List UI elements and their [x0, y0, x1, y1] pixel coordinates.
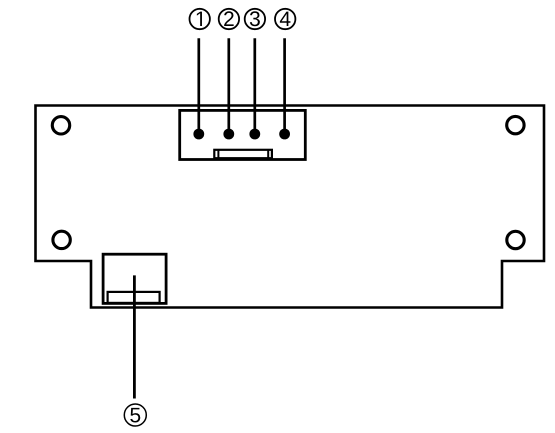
top connector tab — [214, 150, 272, 158]
mounting hole bottom-left — [53, 231, 70, 248]
pin 3 dot — [249, 129, 260, 140]
pin 2 dot — [223, 129, 234, 140]
mounting hole top-left — [52, 117, 69, 134]
bottom connector body — [103, 254, 166, 303]
label 2 — [219, 9, 239, 29]
label 4 — [275, 9, 295, 29]
label 1 — [190, 9, 210, 29]
leader line pin 5 — [133, 275, 136, 398]
pin 1 dot — [193, 129, 204, 140]
leader line pin 3 — [253, 38, 256, 134]
mounting hole bottom-right — [507, 231, 524, 248]
bottom connector tab — [108, 292, 160, 303]
label 5 — [124, 404, 146, 426]
label 3 — [245, 9, 265, 29]
leader line pin 1 — [197, 38, 200, 134]
top connector body — [180, 110, 306, 159]
mounting hole top-right — [507, 116, 524, 133]
leader line pin 4 — [283, 38, 286, 134]
board outline — [36, 106, 545, 308]
leader line pin 2 — [227, 38, 230, 134]
pin 4 dot — [279, 129, 290, 140]
